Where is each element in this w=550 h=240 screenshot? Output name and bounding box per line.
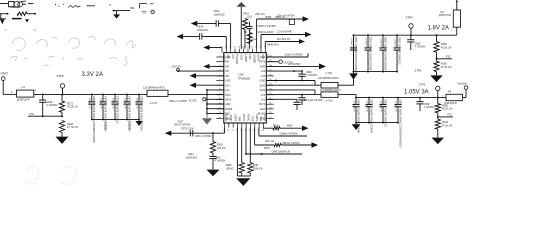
- wire 1.8V cluster bottom: [354, 71, 398, 73]
- svg-text:100uF/6.3V: 100uF/6.3V: [111, 98, 113, 110]
- svg-text:VCC5V: VCC5V: [189, 99, 198, 102]
- svg-text:LX2: LX2: [261, 75, 266, 78]
- svg-text:4.7nF/50V: 4.7nF/50V: [47, 104, 58, 107]
- svg-text:GND: GND: [239, 54, 243, 60]
- capacitor C814: [196, 36, 200, 38]
- capacitor C832: [419, 98, 421, 102]
- svg-text:F31: F31: [448, 114, 453, 117]
- svg-text:20K: 20K: [244, 32, 248, 34]
- svg-text:17: 17: [229, 46, 231, 48]
- fuse F5: [446, 94, 463, 100]
- svg-text:C837: C837: [178, 120, 184, 123]
- svg-text:27: 27: [269, 117, 271, 119]
- svg-text:4.7nF/50V: 4.7nF/50V: [215, 160, 226, 163]
- svg-text:@28TQ3-R: @28TQ3-R: [439, 14, 452, 17]
- svg-text:C861 470uF/6.3V/MLCC/X5R: C861 470uF/6.3V/MLCC/X5R: [369, 99, 373, 133]
- svg-text:VIN3: VIN3: [225, 94, 231, 97]
- ground cluster: [138, 119, 140, 121]
- op-amp U20 body: [224, 53, 266, 123]
- svg-text:10: 10: [259, 46, 261, 48]
- ground R280: [436, 72, 438, 76]
- wire 1.8V bus: [354, 34, 457, 36]
- svg-text:4.7nF/50V: 4.7nF/50V: [415, 46, 426, 49]
- wire L21 to 1.05bus: [338, 94, 356, 96]
- svg-text:100uF/6.3V: 100uF/6.3V: [393, 38, 395, 50]
- wire FB3 left: [224, 128, 226, 134]
- svg-text:10uF/16V: 10uF/16V: [214, 12, 226, 16]
- ghost texture row1: [12, 36, 136, 50]
- wire dash: [87, 5, 96, 7]
- svg-text:100uF/6.3V: 100uF/6.3V: [379, 38, 381, 50]
- svg-text:PGOOD: PGOOD: [235, 54, 239, 64]
- svg-text:C819 1uF/16V: C819 1uF/16V: [258, 31, 274, 34]
- svg-text:SST1: SST1: [259, 103, 266, 106]
- wire 1.05V bus: [356, 97, 446, 99]
- svg-text:F4: F4: [22, 86, 26, 90]
- svg-text:VIN1: VIN1: [260, 89, 266, 92]
- svg-text:1: 1: [220, 55, 221, 57]
- svg-text:FSS: FSS: [251, 116, 255, 121]
- svg-text:2.2uF/16V(4P): 2.2uF/16V(4P): [277, 32, 292, 34]
- svg-text:C836xx 7nF/50V: C836xx 7nF/50V: [280, 133, 298, 136]
- svg-text:/X5R/20%: /X5R/20%: [127, 121, 129, 131]
- wire row2: [0, 13, 8, 15]
- svg-text:GND: GND: [225, 80, 231, 83]
- ghost texture row2: [10, 56, 128, 66]
- svg-text:@28TQ3-R: @28TQ3-R: [17, 99, 30, 102]
- net arrow row 128: [302, 126, 309, 131]
- svg-text:470uF/6.3V: 470uF/6.3V: [365, 101, 367, 113]
- svg-text:VIN: VIN: [225, 70, 229, 73]
- svg-text:LX2: LX2: [261, 70, 266, 73]
- svg-text:13: 13: [246, 46, 248, 48]
- svg-text:F32: F32: [446, 55, 451, 58]
- svg-text:C813: C813: [247, 17, 253, 19]
- svg-text:+4.7nF/50V: +4.7nF/50V: [288, 63, 301, 66]
- svg-text:4.7nF/50V: 4.7nF/50V: [306, 74, 317, 77]
- svg-text:1.05V 3A: 1.05V 3A: [404, 90, 429, 96]
- svg-text:C824 @4.7nF/50V: C824 @4.7nF/50V: [304, 100, 324, 102]
- ground C843: [212, 162, 214, 170]
- wire bracket: [140, 4, 147, 9]
- svg-text:C816 100uF/6.3V/MLCC: C816 100uF/6.3V/MLCC: [139, 96, 143, 124]
- wire row 136: [258, 128, 260, 137]
- speck dots: [55, 4, 56, 5]
- svg-text:470uF/6.3V: 470uF/6.3V: [352, 101, 354, 113]
- svg-text:C815 4.7nF/50V: C815 4.7nF/50V: [258, 24, 277, 28]
- note smudge: [142, 10, 147, 12]
- pins U20 bottom: [224, 123, 226, 128]
- wire C814 to pin: [206, 36, 226, 38]
- wire LX2 b: [266, 94, 321, 96]
- pins U20 right: [266, 56, 274, 58]
- svg-text:470uF/6.3V: 470uF/6.3V: [379, 101, 381, 113]
- svg-text:40.2K,1%: 40.2K,1%: [442, 108, 454, 111]
- svg-text:VIN2: VIN2: [260, 65, 266, 68]
- wire 1.05V cluster bottom: [356, 122, 398, 124]
- resistor R274: [273, 127, 280, 130]
- ground small: [116, 11, 118, 15]
- terminal +3V3: [1, 77, 5, 81]
- terminal ZTP4: [409, 24, 413, 28]
- wire row 145: [254, 128, 256, 146]
- net arrow row 75.8: [196, 75, 224, 77]
- svg-text:GND: GND: [260, 80, 266, 83]
- svg-text:VIN1: VIN1: [260, 84, 266, 87]
- svg-text:12.7K,1%: 12.7K,1%: [67, 126, 79, 129]
- svg-text:22: 22: [232, 130, 234, 132]
- ground 1.8V cluster: [353, 72, 355, 74]
- svg-text:R844: R844: [251, 39, 257, 41]
- svg-text:SST2: SST2: [259, 61, 266, 64]
- resistor R843: [242, 19, 247, 30]
- svg-text:470uF/6.3V: 470uF/6.3V: [394, 101, 396, 113]
- resistor R275: [274, 143, 281, 146]
- svg-text:100uF/6.3V: 100uF/6.3V: [135, 98, 137, 110]
- svg-text:/X5R/20%: /X5R/20%: [103, 121, 105, 131]
- wire squiggle: [68, 6, 81, 8]
- svg-text:EN1: EN1: [260, 108, 265, 111]
- component row3: [12, 18, 22, 20]
- svg-text:VIN: VIN: [231, 54, 235, 58]
- svg-text:2: 2: [442, 95, 443, 97]
- svg-text:VCC5V: VCC5V: [172, 65, 181, 69]
- svg-text:100uF/6.3V: 100uF/6.3V: [99, 98, 101, 110]
- svg-text:C808 100uF/6.3V/MLCC/X5R/20%/0: C808 100uF/6.3V/MLCC/X5R/20%/0805x: [92, 96, 96, 144]
- svg-text:· - ·: · - ·: [357, 156, 362, 160]
- resistor R268: [59, 121, 64, 133]
- svg-text:1.8V 2A: 1.8V 2A: [428, 25, 449, 31]
- svg-text:( ·: ( ·: [44, 54, 47, 58]
- svg-text:100uF/6.3V: 100uF/6.3V: [350, 38, 352, 50]
- svg-text:ZTP5: ZTP5: [57, 74, 64, 78]
- wire cluster bottom bus: [92, 118, 139, 120]
- svg-text:F6: F6: [441, 10, 445, 14]
- svg-text:·: ·: [372, 155, 373, 159]
- wire row1 stub: [28, 3, 34, 5]
- svg-text:29: 29: [262, 130, 264, 132]
- net arrow FB3: [165, 131, 172, 136]
- svg-text:DYNC: DYNC: [242, 114, 246, 121]
- svg-text:C818 4.7nF/50V: C818 4.7nF/50V: [285, 54, 304, 57]
- inductor L21: [321, 92, 338, 98]
- pins U20 top: [221, 49, 223, 53]
- svg-text:15: 15: [238, 46, 240, 48]
- capacitor C626: [42, 94, 44, 100]
- wire VIN distribution: [207, 89, 224, 91]
- svg-text:LX3: LX3: [225, 89, 230, 92]
- wire F33: [61, 112, 63, 116]
- ground R268: [61, 133, 63, 137]
- svg-text:2: 2: [220, 60, 221, 62]
- wire left vert: [0, 14, 2, 19]
- wire VCC5V row2: [178, 70, 224, 72]
- svg-text:SS3D: SS3D: [229, 115, 233, 122]
- svg-text:100uF/6.3V: 100uF/6.3V: [88, 98, 90, 110]
- wire F32: [436, 52, 438, 61]
- svg-text:450K: 450K: [287, 124, 293, 127]
- capacitor C825: [296, 99, 298, 102]
- junction C626: [42, 93, 44, 95]
- resistor R280: [434, 61, 439, 71]
- pins U20 left: [216, 56, 224, 58]
- wire stub with junction: [113, 10, 130, 12]
- svg-text:LX1: LX1: [261, 98, 266, 101]
- ground 1.05V cluster: [355, 123, 357, 125]
- svg-text:C850 100uF/6.3V/MLCC/X5R/20%: C850 100uF/6.3V/MLCC/X5R/20%: [354, 37, 358, 77]
- net arrow VIN left (C814): [177, 34, 184, 39]
- wire LX2 a: [266, 89, 315, 91]
- wire VIN to C814: [183, 36, 195, 38]
- svg-text:28: 28: [269, 112, 271, 114]
- wire row3: [0, 18, 6, 20]
- ground top-left: [0, 19, 5, 24]
- wire C811 to pin: [223, 23, 231, 25]
- svg-text:40.2K,1%: 40.2K,1%: [67, 106, 79, 109]
- svg-text:CMP3: CMP3: [233, 114, 237, 122]
- svg-text:L20 SRP6Fxx4R7U: L20 SRP6Fxx4R7U: [143, 86, 165, 89]
- net arrow row 85.2: [196, 84, 224, 86]
- svg-text:C8xx +4.7uF/50V: C8xx +4.7uF/50V: [277, 15, 295, 17]
- flag VCC5V right: [266, 61, 279, 63]
- svg-text:SST3: SST3: [225, 98, 232, 101]
- ghost arc a: [26, 166, 39, 181]
- ground bottom center: [236, 178, 250, 186]
- svg-text:LX1: LX1: [261, 94, 266, 97]
- resistor R260: [241, 128, 243, 163]
- inductor L56: [321, 83, 338, 89]
- net arrow row C: [299, 39, 305, 44]
- svg-text:100uF/6.3V: 100uF/6.3V: [123, 98, 125, 110]
- svg-text:10uF/16V: 10uF/16V: [197, 28, 209, 32]
- svg-text:204,1%: 204,1%: [217, 147, 226, 150]
- resistor row2: [17, 12, 27, 16]
- inductor L20: [147, 90, 168, 96]
- svg-text:FB1: FB1: [248, 54, 252, 59]
- capacitor C813: [249, 22, 251, 27]
- svg-text:SS1: SS1: [259, 116, 263, 121]
- net arrow AVIN top: [210, 47, 222, 49]
- svg-text:VIN: VIN: [226, 54, 230, 58]
- junctions 1.05V bus: [355, 97, 357, 99]
- svg-text:F33: F33: [30, 113, 35, 116]
- svg-text:R843: R843: [243, 14, 249, 16]
- wire L20 out: [168, 93, 207, 95]
- svg-text:C851 100uF/6.3V/MLCC/X5R: C851 100uF/6.3V/MLCC/X5R: [368, 37, 372, 71]
- svg-text:6: 6: [220, 79, 221, 81]
- svg-text:C842xx 7nF/51V: C842xx 7nF/51V: [282, 142, 300, 145]
- wire R262 drop: [212, 133, 214, 141]
- wire LX1 b: [266, 84, 321, 86]
- svg-text:LX3: LX3: [225, 84, 230, 87]
- ground arrow below dist: [206, 113, 208, 118]
- capacitor C816 hang: [289, 19, 294, 24]
- svg-text:Rxx 49.9,1%: Rxx 49.9,1%: [277, 39, 290, 41]
- svg-text:VIN: VIN: [225, 65, 229, 68]
- wire L56 to 1.8bus: [338, 84, 354, 86]
- svg-text:11: 11: [255, 46, 257, 48]
- wire row C: [264, 42, 266, 49]
- resistor R261: [249, 128, 251, 163]
- svg-text:40.2K,1%: 40.2K,1%: [441, 46, 453, 49]
- svg-text:L21 SRP6Fxx4R7U: L21 SRP6Fxx4R7U: [320, 89, 341, 92]
- svg-text:C820 +4.7nF/50V: C820 +4.7nF/50V: [169, 101, 188, 103]
- svg-text:TPS65283: TPS65283: [238, 77, 251, 81]
- svg-text:+3V3: +3V3: [0, 72, 8, 76]
- terminal ZTP3: [436, 86, 440, 90]
- wire resistor join: [241, 173, 243, 176]
- svg-text:ROSC: ROSC: [246, 114, 250, 122]
- resistor R281: [437, 98, 439, 104]
- wire row 66: [266, 65, 319, 67]
- svg-text:0R/NC: 0R/NC: [226, 168, 233, 171]
- net arrow row 66: [210, 65, 224, 67]
- net arrow row 145: [312, 142, 319, 147]
- speck: [109, 4, 110, 5]
- svg-text:18: 18: [225, 46, 227, 48]
- fuse F4: [17, 90, 34, 97]
- svg-text:CMP1: CMP1: [255, 114, 259, 122]
- resistor R844: [247, 33, 252, 44]
- wire row 99: [266, 98, 297, 100]
- wire dot row 154: [245, 128, 247, 155]
- fuse F6: [456, 1, 458, 10]
- svg-text:·-: ·-: [148, 157, 150, 160]
- resistor R262: [210, 142, 215, 154]
- svg-text:F5: F5: [448, 90, 452, 94]
- svg-text:9: 9: [264, 46, 265, 48]
- capacitor C811: [212, 23, 216, 25]
- svg-text:C831 4.7nF/50V: C831 4.7nF/50V: [195, 136, 212, 138]
- wire connector row1: [0, 3, 8, 5]
- ghost arc b: [62, 167, 76, 182]
- svg-text:RLIM3: RLIM3: [225, 114, 229, 122]
- svg-text:FB3: FB3: [238, 117, 242, 122]
- svg-text:Vset1V0: Vset1V0: [458, 83, 468, 86]
- svg-text:LOWP: LOWP: [244, 54, 248, 62]
- svg-text:C852 100uF/6.3V/MLCC/X5R: C852 100uF/6.3V/MLCC/X5R: [383, 37, 387, 71]
- svg-text:ZTP3: ZTP3: [419, 84, 426, 87]
- capacitors 1.8V cluster: [353, 35, 355, 48]
- svg-text:100uF/6.3V: 100uF/6.3V: [364, 38, 366, 50]
- ground R240: [437, 129, 439, 137]
- capacitors 3.3V cluster: [91, 93, 93, 95]
- capacitor C837 series: [189, 130, 191, 136]
- svg-text:RLIM1: RLIM1: [264, 114, 268, 122]
- svg-text:R275: R275: [264, 147, 270, 150]
- svg-text:1: 1: [451, 8, 452, 10]
- svg-text:ZTP6: ZTP6: [415, 68, 422, 72]
- svg-text:VIN: VIN: [225, 75, 229, 78]
- resistor R286: [436, 35, 438, 41]
- svg-text:36: 36: [269, 74, 271, 76]
- svg-text:AGND: AGND: [222, 54, 226, 62]
- net arrow row A: [303, 16, 310, 21]
- wire long ground: [236, 128, 238, 177]
- svg-text:4.7nF/50V: 4.7nF/50V: [424, 106, 435, 109]
- wire LX1 a: [266, 80, 315, 82]
- svg-text:C863 470uF/6.3V/MLCC/X5R/20%/0: C863 470uF/6.3V/MLCC/X5R/20%/0805xT: [398, 99, 402, 148]
- capacitor C843: [212, 153, 214, 156]
- svg-text:16: 16: [233, 46, 235, 48]
- resistor R240: [435, 119, 440, 129]
- svg-text:R273 120K: R273 120K: [182, 128, 194, 131]
- svg-text:4.7uH: 4.7uH: [150, 102, 157, 105]
- svg-text:U20: U20: [238, 73, 244, 77]
- net arrow row 66 right: [319, 64, 326, 70]
- svg-text:RLIM3: RLIM3: [225, 108, 233, 111]
- svg-text:30: 30: [269, 103, 271, 105]
- svg-text:L56 SRP6Fxx4R7U: L56 SRP6Fxx4R7U: [318, 77, 339, 80]
- connector J1 fragment: [9, 2, 15, 7]
- svg-text:3.3V 2A: 3.3V 2A: [82, 72, 103, 78]
- terminal ZTP5: [60, 84, 64, 88]
- wire row 57: [266, 56, 308, 58]
- net arrow row B: [305, 32, 312, 37]
- svg-text:21: 21: [227, 130, 229, 132]
- svg-text:SS1+4.7nF/50V: SS1+4.7nF/50V: [174, 125, 191, 127]
- capacitor C823: [301, 71, 303, 74]
- wire row2 right: [27, 13, 36, 15]
- svg-text:SS1: SS1: [261, 54, 265, 59]
- svg-text:ZTP4: ZTP4: [406, 16, 413, 20]
- svg-text:R274: R274: [273, 124, 279, 127]
- svg-text:C845 100uF/6.3V: C845 100uF/6.3V: [272, 151, 291, 154]
- svg-text:37.5K,1%: 37.5K,1%: [441, 66, 453, 69]
- svg-text:2E04,1%: 2E04,1%: [253, 168, 264, 171]
- capacitor C830: [410, 35, 412, 40]
- svg-text:37.1K,1%: 37.1K,1%: [442, 124, 454, 127]
- wire row 145b: [281, 144, 312, 146]
- svg-text:4.7uH: 4.7uH: [326, 72, 333, 75]
- svg-text:R846 49.9: R846 49.9: [267, 43, 279, 46]
- capacitors 1.05V cluster: [355, 98, 357, 105]
- svg-text:100uF/50V: 100uF/50V: [186, 157, 198, 160]
- svg-text:29: 29: [269, 107, 271, 109]
- svg-text:20K,1%: 20K,1%: [265, 140, 275, 143]
- svg-text:4.7uH: 4.7uH: [326, 100, 333, 103]
- svg-text:GND: GND: [225, 103, 231, 106]
- svg-text:C853 100uF/6.3V/MLCC: C853 100uF/6.3V/MLCC: [397, 37, 401, 65]
- wire to C811: [197, 23, 212, 25]
- capacitor C824: [301, 95, 303, 98]
- net arrow left (C811): [191, 21, 198, 26]
- svg-text:COMP1: COMP1: [252, 54, 256, 64]
- svg-text:ILIM1: ILIM1: [257, 54, 261, 61]
- wire 3.3V bus: [34, 93, 147, 95]
- wire +3V3 down: [2, 81, 4, 95]
- wire row 128b: [280, 127, 302, 129]
- junctions 1.8V bus: [353, 34, 355, 36]
- wire row B: [260, 35, 262, 49]
- resistor R272: [61, 94, 63, 101]
- transistor Q fragment: [25, 19, 29, 22]
- wire F31: [437, 113, 439, 119]
- wire row 71: [266, 70, 302, 72]
- svg-text:20K,1%: 20K,1%: [255, 12, 265, 16]
- wire row A: [256, 19, 258, 49]
- power arrow up: [240, 6, 242, 49]
- wire row 128: [262, 127, 264, 130]
- svg-text:-: -: [136, 158, 137, 161]
- svg-text:2: 2: [451, 30, 452, 32]
- svg-text:12: 12: [251, 46, 253, 48]
